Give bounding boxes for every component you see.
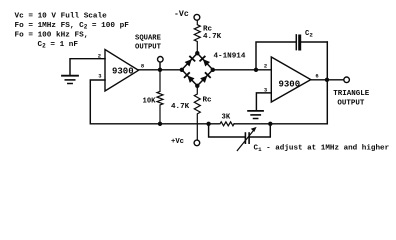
- diode CR3 (bottom-left of bridge): [183, 72, 195, 84]
- svg-text:4-1N914: 4-1N914: [214, 52, 246, 60]
- op-amp U2 (9300 integrator): [271, 57, 311, 102]
- label: SQUARE OUTPUT: [135, 35, 162, 52]
- wire: square output stem: [159, 62, 161, 70]
- node: U2 pin2 / C2 junction: [254, 68, 258, 72]
- svg-text:C2: C2: [305, 30, 313, 38]
- wire: C1 branch (parallel with 3K): [209, 124, 245, 137]
- node: 3K/C1 left junction: [206, 122, 210, 126]
- svg-text:OUTPUT: OUTPUT: [135, 43, 162, 51]
- note text block: [15, 13, 130, 50]
- svg-text:C2 = 1 nF: C2 = 1 nF: [38, 41, 79, 49]
- resistor Rc 4.7K (top, to -Vc): [194, 20, 200, 53]
- svg-text:10K: 10K: [143, 97, 157, 105]
- svg-text:Vc = 10 V Full Scale: Vc = 10 V Full Scale: [15, 13, 108, 21]
- node: triangle output junction: [325, 78, 329, 82]
- capacitor C1 (variable): [244, 133, 246, 143]
- svg-text:9300: 9300: [112, 66, 134, 76]
- svg-text:TRIANGLE: TRIANGLE: [333, 90, 370, 98]
- svg-text:9300: 9300: [279, 80, 301, 90]
- wire: U1 output to bridge left vertex: [139, 69, 182, 71]
- node: 10K bottom junction: [158, 122, 162, 126]
- diode bridge wires (diamond): [182, 53, 213, 86]
- wire: U2 output to terminal: [311, 79, 344, 81]
- svg-text:-Vc: -Vc: [174, 10, 189, 19]
- terminal: TRIANGLE OUTPUT: [344, 77, 350, 83]
- diode CR1 (top-left of bridge): [184, 55, 196, 67]
- svg-text:C1 - adjust at 1MHz and higher: C1 - adjust at 1MHz and higher: [254, 145, 390, 153]
- ground (right, at U2 pin 3): [248, 110, 263, 112]
- svg-text:Fo = 100 kHz FS,: Fo = 100 kHz FS,: [15, 31, 89, 39]
- node: bridge top vertex: [195, 51, 199, 55]
- resistor Rc 4.7K (bottom, to +Vc): [194, 86, 200, 140]
- wire: U2 pin3 to ground: [256, 93, 271, 110]
- node: 3K/C1 right junction: [268, 122, 272, 126]
- svg-text:4.7K: 4.7K: [203, 33, 222, 41]
- wire: bridge right vertex to U2 pin 2: [213, 69, 271, 71]
- svg-text:Fo = 1MHz FS, C2 = 100 pF: Fo = 1MHz FS, C2 = 100 pF: [15, 22, 130, 30]
- ground (left, at U1 pin 2): [62, 75, 78, 77]
- svg-text:6: 6: [315, 72, 318, 79]
- node: bridge right vertex: [211, 68, 215, 72]
- wire: C2 right to output node: [301, 41, 327, 43]
- svg-text:4.7K: 4.7K: [171, 103, 190, 111]
- svg-text:+Vc: +Vc: [171, 138, 184, 146]
- node: bridge bottom vertex: [195, 84, 199, 88]
- svg-text:2: 2: [264, 63, 267, 70]
- capacitor C2: [295, 35, 297, 50]
- svg-text:2: 2: [98, 53, 101, 60]
- op-amp U1 (9300 comparator): [105, 50, 139, 92]
- svg-text:OUTPUT: OUTPUT: [337, 99, 365, 107]
- terminal: -Vc: [194, 14, 200, 20]
- wire: U1 pin2 to ground: [70, 59, 105, 75]
- wire: C2 feedback loop left side: [256, 42, 296, 70]
- resistor 3K (horizontal, bottom feedback): [220, 122, 234, 126]
- wire: U1 pin3 feedback down and along bottom: [90, 80, 219, 124]
- resistor 10K (vertical): [157, 70, 163, 124]
- junction dots: [158, 51, 329, 126]
- wire: bottom feedback right section: [234, 123, 327, 125]
- diode CR4 (bottom-right of bridge): [200, 72, 212, 84]
- terminal: SQUARE OUTPUT: [158, 57, 164, 63]
- wire: right vertical from bottom wire up through output node to C2 loop: [326, 42, 328, 124]
- terminal: +Vc: [194, 140, 200, 146]
- node: square output junction: [158, 68, 162, 72]
- diode CR2 (top-right of bridge): [199, 55, 211, 67]
- node: bridge left vertex: [180, 68, 184, 72]
- arrow of variable capacitor C1: [237, 130, 253, 150]
- svg-text:3K: 3K: [222, 113, 231, 121]
- arrowhead of C1 arrow: [251, 127, 257, 132]
- svg-text:Rc: Rc: [203, 97, 213, 105]
- svg-text:SQUARE: SQUARE: [135, 35, 162, 43]
